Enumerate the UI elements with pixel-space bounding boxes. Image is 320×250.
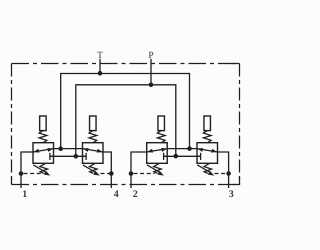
junction pilot tap port 2 [129,171,134,176]
proportional solenoid actuator of valve V1 [40,116,47,131]
spring (lower, adjustable) of valve V1 [40,163,48,173]
wire V3-V4 tank side link [167,148,197,150]
junction pilot tap port 3 [226,171,231,176]
valve body V3 (pressure reducing valve) [147,143,168,164]
flow path arrow inside V3 (double-headed) [147,149,168,152]
pilot line (dashed) of port 1 valve [24,173,43,175]
junction T-bus to left pair [58,146,63,151]
wire V1-V2 tank side link [54,148,83,150]
wire V3-V4 pressure side link [164,155,201,157]
blocked port bar inside V2 [85,153,87,160]
manifold enclosure (dash-dot boundary) [12,63,240,65]
valve body V4 (pressure reducing valve) [197,143,218,164]
svg-text:4: 4 [114,189,119,200]
wire P stub [150,59,152,85]
blocked port bar inside V4 [200,153,202,160]
spring (lower, adjustable) of valve V3 [154,163,162,173]
enclosure corner piece top-right [231,63,240,65]
wire work port 4 [103,152,111,188]
valve body V2 (pressure reducing valve) [83,143,104,164]
junction P on pressure bus [149,83,154,88]
spring (lower, adjustable) of valve V4 [204,163,212,173]
blocked port stub inside V2 [83,155,87,157]
wire work port 2 [131,152,147,188]
proportional solenoid actuator of valve V4 [204,116,211,131]
wire work port 3 [218,152,229,188]
wire work port 1 [21,152,33,188]
junction P-bus to left pair [74,154,79,159]
junction P-bus to right pair [174,154,179,159]
flow path arrow inside V2 (double-headed) [83,149,104,152]
adjustment arrow across spring of V1 [33,165,45,172]
spring (upper) of valve V3 [157,131,165,143]
proportional solenoid actuator of valve V2 [90,116,97,131]
svg-text:1: 1 [22,189,27,200]
blocked port stub inside V1 [50,155,54,157]
adjustment arrow across spring of V4 [197,165,209,172]
junction T-bus to right pair [187,146,192,151]
flow path arrow inside V4 (double-headed) [197,149,218,152]
spring (upper) of valve V4 [203,131,211,143]
wire V1-V2 pressure side link [50,155,86,157]
flow path arrow inside V1 (double-headed) [33,149,54,152]
pilot line (dashed) of port 2 valve [134,173,155,175]
blocked port bar inside V1 [49,153,51,160]
blocked port stub inside V4 [197,155,201,157]
svg-text:2: 2 [133,189,138,200]
wire T stub [99,59,101,74]
pilot line (dashed) of port 3 valve [215,173,227,175]
proportional solenoid actuator of valve V3 [158,116,165,131]
junction T on tank bus [98,71,103,76]
spring (lower, adjustable) of valve V2 [89,163,97,173]
enclosure corner piece bottom-left [11,178,13,185]
spring (upper) of valve V2 [89,131,97,143]
valve body V1 (pressure reducing valve) [33,143,54,164]
blocked port stub inside V3 [164,155,168,157]
svg-text:3: 3 [229,189,234,200]
junction pilot tap port 4 [109,171,114,176]
wire tank bus T [61,74,190,149]
adjustment arrow across spring of V2 [83,165,95,172]
junction pilot tap port 1 [19,171,24,176]
pilot line (dashed) of port 4 valve [101,173,110,175]
enclosure corner piece bottom-right [233,178,240,185]
blocked port bar inside V3 [163,153,165,160]
adjustment arrow across spring of V3 [147,165,159,172]
wire pressure bus P [76,85,176,157]
spring (upper) of valve V1 [39,131,47,143]
